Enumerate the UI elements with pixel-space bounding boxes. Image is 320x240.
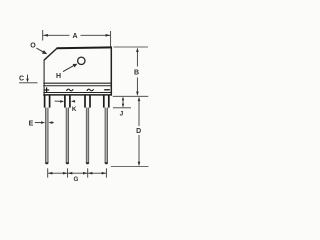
polarity mark tilde 2 [87, 89, 94, 91]
svg-text:D: D [136, 128, 141, 135]
O leader arrow [36, 48, 43, 52]
C down arrow [27, 75, 29, 80]
C extension line [19, 82, 38, 84]
dimension E arrow left [35, 122, 42, 124]
body left edge [43, 60, 45, 96]
dimension B line [136, 50, 138, 67]
body right edge [110, 47, 112, 96]
dimension B arrowhead bottom [136, 92, 139, 97]
svg-text:H: H [56, 73, 61, 80]
dimension D arrowhead bottom [138, 162, 141, 167]
polarity mark minus [104, 89, 110, 91]
svg-text:G: G [74, 176, 79, 183]
lead 4 pin [105, 108, 108, 164]
lead 2 pin [66, 108, 69, 164]
svg-text:O: O [30, 42, 36, 49]
body bottom edge [43, 94, 112, 96]
H leader arrow [63, 65, 74, 71]
lead 1 pin [45, 108, 48, 164]
lead 2 shoulder [64, 95, 66, 107]
dimension A extension tick right [110, 31, 112, 47]
svg-text:K: K [72, 106, 77, 113]
extension line top right (body top) [114, 46, 149, 48]
lead 1 shoulder [44, 95, 46, 107]
terminal strip lower line [43, 92, 111, 94]
lead 3 pin [86, 108, 89, 164]
lead 4 shoulder [103, 95, 105, 107]
dimension A extension tick left [42, 30, 44, 41]
G tick lead 1 [47, 168, 49, 177]
dimension D line [138, 99, 140, 126]
dimension K arrow right [74, 100, 76, 102]
G tick lead 3 [87, 168, 89, 177]
dimension A arrowhead right [106, 34, 111, 37]
svg-text:E: E [29, 120, 34, 127]
extension line lead shoulder bottom (J) [113, 107, 131, 109]
lead 3 shoulder [84, 95, 86, 107]
svg-text:C: C [19, 75, 24, 82]
svg-text:A: A [72, 33, 77, 40]
G arrowheads [48, 172, 53, 175]
dimension G line [48, 172, 107, 174]
terminal strip upper line 1 [43, 82, 111, 84]
polarity mark tilde 1 [66, 89, 73, 91]
mounting hole H circle [78, 57, 85, 64]
G tick lead 2 [67, 168, 69, 177]
polarity mark plus [44, 89, 49, 91]
body top edge [57, 46, 112, 49]
dimension E arrow right [52, 122, 54, 124]
body chamfer edge [44, 48, 57, 60]
svg-text:J: J [120, 111, 124, 118]
dimension B arrowhead top [136, 48, 139, 53]
terminal strip upper line 2 [43, 85, 111, 87]
dimension A line [43, 34, 69, 36]
extension line lead tip bottom [111, 166, 148, 168]
dimension D arrowhead top [138, 97, 141, 102]
dimension J arrows [122, 99, 124, 106]
svg-text:B: B [134, 70, 139, 77]
dimension A arrowhead left [43, 34, 48, 37]
G tick lead 4 [105, 168, 107, 177]
extension line body bottom right [113, 95, 149, 97]
dimension K arrow left [55, 100, 61, 102]
